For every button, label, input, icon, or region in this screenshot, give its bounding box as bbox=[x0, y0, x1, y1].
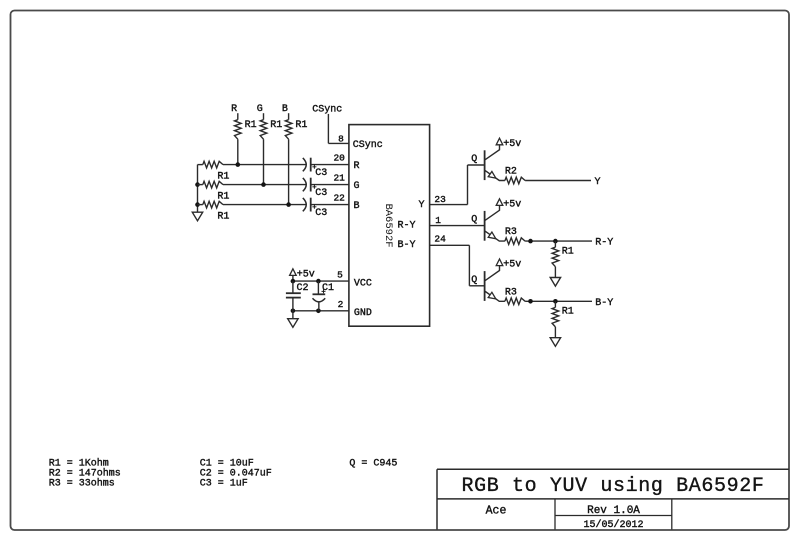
svg-text:R1: R1 bbox=[217, 192, 229, 203]
svg-text:23: 23 bbox=[434, 194, 446, 205]
svg-text:R: R bbox=[354, 161, 360, 172]
svg-text:B: B bbox=[282, 104, 288, 115]
svg-text:Q = C945: Q = C945 bbox=[349, 458, 397, 469]
svg-text:C3: C3 bbox=[315, 208, 327, 219]
svg-text:C3 = 1uF: C3 = 1uF bbox=[200, 478, 248, 489]
svg-text:GND: GND bbox=[354, 308, 372, 319]
svg-text:Q: Q bbox=[471, 215, 477, 226]
svg-text:+5v: +5v bbox=[297, 269, 315, 280]
svg-text:VCC: VCC bbox=[354, 278, 372, 289]
svg-text:C3: C3 bbox=[315, 188, 327, 199]
svg-text:R1: R1 bbox=[217, 172, 229, 183]
svg-text:Q: Q bbox=[471, 275, 477, 286]
svg-text:R3 = 33ohms: R3 = 33ohms bbox=[49, 477, 115, 489]
svg-text:B-Y: B-Y bbox=[397, 240, 415, 251]
svg-text:Y: Y bbox=[418, 200, 424, 211]
svg-text:R1: R1 bbox=[562, 246, 574, 257]
svg-text:22: 22 bbox=[333, 192, 345, 203]
svg-text:R1: R1 bbox=[270, 120, 282, 131]
svg-text:Q: Q bbox=[471, 154, 477, 165]
svg-text:B: B bbox=[354, 201, 360, 212]
svg-text:R3: R3 bbox=[505, 287, 517, 298]
svg-text:B-Y: B-Y bbox=[595, 298, 613, 309]
svg-text:Rev 1.0A: Rev 1.0A bbox=[587, 505, 640, 517]
svg-text:20: 20 bbox=[333, 152, 345, 163]
svg-text:C2: C2 bbox=[297, 283, 309, 294]
svg-text:G: G bbox=[354, 181, 360, 192]
svg-text:CSync: CSync bbox=[353, 140, 383, 151]
svg-text:CSync: CSync bbox=[312, 105, 342, 116]
svg-text:21: 21 bbox=[333, 172, 345, 183]
svg-text:BA6592F: BA6592F bbox=[382, 203, 394, 247]
svg-text:R1: R1 bbox=[295, 120, 307, 131]
svg-text:R1: R1 bbox=[562, 307, 574, 318]
svg-text:R-Y: R-Y bbox=[397, 221, 415, 232]
svg-text:R3: R3 bbox=[505, 227, 517, 238]
svg-text:1: 1 bbox=[435, 215, 441, 226]
svg-text:RGB to YUV using BA6592F: RGB to YUV using BA6592F bbox=[462, 475, 765, 498]
svg-text:Ace: Ace bbox=[486, 505, 507, 518]
svg-text:R2: R2 bbox=[505, 167, 517, 178]
svg-text:R1: R1 bbox=[245, 120, 257, 131]
svg-text:R1: R1 bbox=[217, 212, 229, 223]
svg-text:R-Y: R-Y bbox=[595, 238, 613, 249]
svg-text:R: R bbox=[231, 104, 237, 115]
svg-text:8: 8 bbox=[338, 133, 344, 144]
svg-text:Y: Y bbox=[595, 177, 601, 188]
svg-text:24: 24 bbox=[434, 233, 446, 244]
svg-text:+5v: +5v bbox=[503, 260, 521, 271]
svg-text:+5v: +5v bbox=[503, 199, 521, 210]
svg-text:5: 5 bbox=[337, 269, 343, 280]
svg-text:+: + bbox=[321, 288, 326, 296]
svg-text:15/05/2012: 15/05/2012 bbox=[583, 519, 643, 531]
svg-text:+5v: +5v bbox=[503, 139, 521, 150]
svg-text:C3: C3 bbox=[315, 168, 327, 179]
svg-text:2: 2 bbox=[338, 299, 344, 310]
svg-text:G: G bbox=[257, 104, 263, 115]
